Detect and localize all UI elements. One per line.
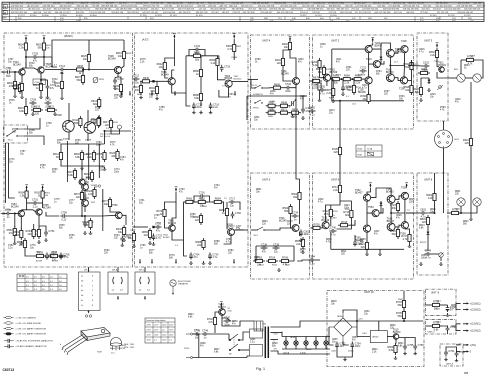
svg-text:448 715: 448 715 [219, 6, 228, 8]
resistor R663 [31, 227, 41, 239]
svg-text:276 244: 276 244 [351, 9, 360, 11]
ground [122, 238, 126, 241]
wire [427, 203, 435, 213]
arrow [117, 296, 119, 300]
junction [339, 100, 341, 102]
ground [446, 313, 450, 316]
svg-text:220: 220 [348, 89, 353, 92]
svg-text:C712: C712 [59, 65, 66, 68]
wire [183, 202, 185, 240]
svg-text:R639: R639 [113, 122, 119, 124]
wire lamp [285, 337, 287, 341]
svg-text:2.2k: 2.2k [326, 92, 331, 95]
wire secondary 2 [271, 339, 279, 341]
wire lamp [315, 337, 317, 341]
wire [389, 57, 391, 73]
wire interconnect [339, 173, 341, 183]
transistor T612 [79, 177, 92, 185]
supply +V [175, 187, 178, 192]
wire signal [66, 69, 75, 71]
svg-text:UNIT 4: UNIT 4 [262, 39, 271, 43]
svg-text:120: 120 [422, 221, 427, 224]
svg-text:R670: R670 [269, 108, 276, 111]
table line [15, 17, 17, 20]
label R793 [399, 96, 405, 101]
svg-text:720 624 304 809: 720 624 304 809 [444, 9, 461, 11]
voltage table line [57, 274, 59, 291]
wire [390, 203, 392, 223]
svg-text:R621: R621 [48, 106, 55, 109]
table line [54, 20, 56, 22]
svg-text:4.7u: 4.7u [320, 92, 325, 95]
label R824 [188, 314, 194, 319]
terminal [463, 323, 481, 326]
resistor R610 [116, 49, 126, 61]
wire [465, 77, 473, 79]
switch S1 [6, 128, 24, 136]
lamp [284, 341, 288, 345]
capacitor C715 [192, 103, 203, 110]
svg-text:3=2.3 4=1.4: 3=2.3 4=1.4 [100, 136, 110, 138]
wire [152, 80, 168, 82]
svg-text:BC550: BC550 [393, 331, 401, 334]
transistor T552 [355, 189, 371, 201]
svg-text:916 567 170 960: 916 567 170 960 [373, 3, 390, 5]
capacitor C724 [208, 253, 219, 260]
wire [39, 226, 46, 230]
label C779 [30, 245, 36, 250]
label C842 [455, 99, 461, 104]
wire bus top [332, 48, 365, 50]
svg-text:470 406 354: 470 406 354 [231, 3, 244, 5]
wire [14, 91, 16, 94]
transistor T604 [225, 75, 233, 87]
resistor R615 [18, 104, 28, 116]
svg-text:472 585 225 218: 472 585 225 218 [280, 6, 297, 8]
resistor R668 [278, 101, 290, 107]
ground [301, 116, 305, 119]
voltage table line [32, 274, 34, 291]
connector bracket [140, 277, 141, 284]
resistor R612 [91, 97, 101, 109]
wire signal [86, 69, 115, 71]
wire [226, 218, 229, 229]
unit box UNIT 6 [313, 173, 414, 279]
resistor R704 [266, 257, 278, 263]
resistor R671 [278, 108, 290, 114]
svg-text:426 194 839: 426 194 839 [163, 12, 176, 14]
transistor T558 [400, 222, 409, 236]
wire [451, 303, 461, 305]
resistor R670 [266, 108, 278, 114]
svg-text:567 991: 567 991 [165, 6, 174, 8]
mains terminal N [190, 356, 192, 358]
resistor R625 [81, 52, 91, 64]
DIN socket BU1 [435, 130, 453, 148]
resistor R626 [86, 187, 96, 199]
svg-text:2.2u: 2.2u [310, 262, 315, 265]
svg-text:BC549: BC549 [13, 63, 21, 66]
ground [89, 231, 93, 234]
svg-text:2.2k: 2.2k [344, 82, 349, 85]
svg-text:560: 560 [151, 90, 156, 93]
wire [390, 53, 404, 66]
ground [132, 244, 136, 247]
label R790 [255, 59, 261, 64]
wire [239, 349, 250, 351]
thermistor [117, 125, 121, 129]
resistor R640 [82, 218, 92, 230]
svg-text:690 699: 690 699 [106, 3, 115, 5]
svg-text:T604 , T605: T604 , T605 [124, 344, 134, 346]
wire [186, 93, 190, 106]
label C784 [120, 157, 126, 162]
svg-text:121 114: 121 114 [199, 9, 207, 11]
svg-text:= ¼W ± 5% CARBON: = ¼W ± 5% CARBON [16, 316, 37, 319]
svg-text:4.7k: 4.7k [208, 321, 213, 324]
ground [148, 241, 152, 244]
transistor T555 [355, 225, 371, 242]
transistor T655 [36, 204, 51, 215]
svg-text:PU03: PU03 [35, 82, 41, 84]
ground [394, 356, 398, 359]
label R799 [440, 107, 446, 112]
resistor R613 [33, 81, 43, 93]
transistor T203 [366, 58, 380, 68]
svg-text:BD437: BD437 [218, 306, 226, 309]
svg-text:861 186 842: 861 186 842 [136, 9, 149, 11]
wire [299, 232, 301, 237]
wire [247, 95, 307, 97]
wire [337, 220, 352, 229]
svg-text:1-5: 1-5 [26, 289, 29, 291]
resistor R621 [45, 106, 57, 112]
transistor T501 [279, 217, 299, 232]
ground [202, 261, 206, 264]
svg-text:223 669 163 433: 223 669 163 433 [362, 9, 379, 11]
svg-text:4.7u: 4.7u [63, 256, 68, 259]
wire vertical right [470, 148, 472, 213]
resistor R604 [12, 82, 22, 94]
resistor R611 [72, 116, 82, 128]
resistor R604 [18, 41, 28, 53]
svg-text:91 243: 91 243 [170, 15, 177, 17]
wire [200, 79, 202, 91]
capacitor C718 [113, 78, 124, 85]
svg-text:C716: C716 [199, 191, 206, 194]
svg-text:220: 220 [465, 142, 470, 145]
wire [247, 356, 250, 358]
wire [88, 40, 90, 52]
wire [372, 43, 390, 49]
wire [33, 224, 35, 227]
voltage table circles [19, 275, 21, 277]
svg-text:2.2u: 2.2u [250, 342, 255, 344]
wire [88, 144, 90, 180]
svg-text:1-4: 1-4 [112, 290, 115, 292]
wire [443, 121, 445, 130]
diode [428, 78, 431, 84]
svg-text:895 287 723: 895 287 723 [337, 9, 350, 11]
svg-text:439 629 738: 439 629 738 [196, 12, 209, 14]
capacitor C736 [261, 243, 268, 253]
resistor R649 [149, 84, 159, 96]
label C806 [270, 91, 276, 96]
svg-text:c: c [63, 348, 64, 350]
wire [12, 213, 19, 215]
jack switch S5 [439, 253, 444, 258]
ground [341, 92, 345, 95]
svg-text:C749: C749 [202, 329, 209, 332]
label R774 [12, 129, 18, 134]
resistor R688 [193, 91, 203, 103]
supply +V [43, 36, 46, 41]
label C827 [374, 231, 380, 236]
junction plug [152, 226, 154, 228]
table row text [18, 15, 471, 17]
svg-text:255 600 531: 255 600 531 [313, 3, 326, 5]
table line [79, 17, 81, 20]
svg-text:R706: R706 [282, 257, 289, 260]
wire [209, 333, 230, 335]
ground [53, 112, 57, 115]
wire [12, 71, 19, 73]
svg-text:+(12V)(2): +(12V)(2) [470, 330, 481, 333]
resistor R638 [48, 252, 60, 262]
svg-text:= FLAT FOIL POLYESTER CAPACITO: = FLAT FOIL POLYESTER CAPACITOR [16, 340, 54, 343]
svg-text:C802: C802 [420, 208, 427, 211]
svg-text:VIBRATOR: VIBRATOR [178, 283, 189, 286]
connector circles [85, 315, 87, 317]
svg-text:898 349 183 688: 898 349 183 688 [253, 3, 270, 5]
label R815 [430, 209, 436, 214]
wire [350, 220, 355, 225]
wire interconnect [295, 129, 297, 173]
voltage table line [24, 274, 26, 291]
svg-text:6.3: 6.3 [50, 289, 53, 291]
svg-text:100n: 100n [421, 258, 427, 260]
svg-text:4.7u: 4.7u [362, 88, 367, 90]
ground [119, 94, 123, 97]
svg-text:391 833 495: 391 833 495 [436, 3, 449, 5]
resistor R645 [96, 150, 106, 162]
resistor R678 [310, 77, 322, 87]
lamp [324, 341, 328, 345]
wire [165, 219, 169, 228]
svg-text:R631: R631 [99, 79, 105, 81]
label C794 [214, 185, 220, 190]
svg-text:47n: 47n [361, 73, 366, 76]
wire [38, 215, 40, 228]
wire output [437, 72, 448, 78]
svg-text:644 537 895 421: 644 537 895 421 [208, 3, 225, 5]
wire [200, 103, 202, 106]
lamp [314, 341, 318, 345]
capacitor C743 [353, 240, 364, 247]
svg-text:4.7u: 4.7u [419, 52, 424, 54]
capacitor C710 [45, 98, 52, 108]
capacitor C707 [45, 253, 56, 260]
svg-text:C736: C736 [261, 243, 268, 246]
wire [283, 50, 290, 56]
wire [460, 60, 462, 74]
label R818 [331, 301, 337, 306]
wire [47, 91, 49, 96]
resistor R709 [311, 224, 323, 230]
wire [223, 202, 225, 212]
resistor R733 [396, 298, 406, 310]
label R758 [99, 167, 105, 172]
wire [84, 216, 86, 221]
svg-text:6.3: 6.3 [26, 285, 29, 287]
ground [60, 96, 64, 99]
svg-text:138 188: 138 188 [53, 3, 62, 5]
resistor R652 [7, 226, 17, 238]
junction [341, 78, 343, 80]
resistor R560 [387, 343, 397, 355]
transistor T617 [218, 304, 226, 316]
wire [380, 61, 384, 64]
svg-text:215 907: 215 907 [211, 12, 220, 14]
transistor T601 [81, 178, 89, 190]
junction [84, 215, 86, 217]
svg-text:61 455: 61 455 [196, 15, 203, 17]
wire [88, 64, 90, 70]
svg-text:R678: R678 [313, 77, 320, 80]
svg-text:47u: 47u [33, 59, 38, 62]
wire [395, 196, 402, 199]
svg-text:Fig. 1: Fig. 1 [256, 367, 265, 371]
svg-text:4.7u: 4.7u [156, 237, 161, 240]
svg-text:240V: 240V [162, 325, 167, 327]
svg-text:220: 220 [86, 176, 91, 179]
label R821 [398, 343, 404, 348]
off-page arrow [233, 259, 235, 264]
wire [14, 238, 16, 241]
wire [391, 200, 405, 214]
svg-text:94 606: 94 606 [42, 15, 49, 17]
wire [14, 214, 16, 228]
svg-text:4.8: 4.8 [42, 285, 45, 287]
wire signal [45, 69, 59, 71]
table letter R [3, 11, 7, 15]
wire [165, 58, 175, 60]
adapter table text [147, 325, 175, 327]
wire [43, 62, 45, 66]
ground [13, 94, 17, 97]
wire [24, 136, 44, 145]
adapter table line [145, 321, 175, 323]
legend resistor symbol [4, 333, 14, 335]
capacitor C726 [285, 83, 292, 93]
svg-text:20 781: 20 781 [464, 15, 471, 17]
svg-text:FU61: FU61 [358, 155, 363, 157]
transistor T205 [358, 77, 372, 94]
off-page arrow [121, 91, 123, 96]
svg-text:336 254 184: 336 254 184 [76, 6, 89, 8]
wire [3, 213, 6, 215]
svg-text:560: 560 [398, 315, 403, 318]
capacitor C747 [224, 316, 231, 326]
capacitor C705 [32, 52, 39, 62]
wire secondary 3 [271, 351, 331, 354]
wire [456, 351, 461, 353]
wire [236, 202, 241, 210]
wire [369, 43, 373, 46]
wire [366, 213, 368, 225]
unit box UNIT 2 [313, 35, 414, 129]
resistor R686 [352, 75, 364, 85]
wire [328, 228, 331, 230]
wire [200, 56, 202, 67]
svg-text:1.5k: 1.5k [19, 46, 24, 49]
svg-text:R692: R692 [36, 252, 42, 254]
terminal [463, 302, 481, 305]
wire [291, 246, 294, 261]
label C777 [69, 200, 75, 205]
svg-text:6.8k: 6.8k [55, 85, 60, 88]
svg-text:485 252 749 358: 485 252 749 358 [258, 6, 275, 8]
capacitor C504 [309, 255, 316, 265]
svg-text:R650: R650 [194, 51, 201, 54]
label R775 [140, 59, 146, 64]
capacitor C754 [351, 342, 362, 349]
adapter table text [147, 340, 172, 342]
ground [37, 240, 41, 243]
svg-text:6.8k: 6.8k [389, 349, 394, 352]
svg-text:220: 220 [361, 246, 366, 249]
svg-text:728 126 172: 728 126 172 [241, 6, 254, 8]
wire [26, 56, 32, 58]
junction [43, 56, 45, 58]
label R764 [114, 235, 120, 240]
svg-text:346 538 174 317: 346 538 174 317 [55, 12, 72, 14]
speaker LS2 [473, 198, 481, 206]
label C775 [54, 199, 60, 204]
svg-text:922 332 304 630: 922 332 304 630 [436, 6, 453, 8]
resistor R703 [253, 257, 265, 267]
wire [283, 87, 285, 89]
label C832 [364, 311, 370, 316]
wire input [251, 229, 256, 231]
svg-text:C302: C302 [423, 61, 430, 64]
wire [425, 304, 430, 306]
svg-text:C731: C731 [360, 66, 367, 69]
svg-text:2.2u: 2.2u [357, 243, 362, 246]
wire [378, 321, 380, 331]
resistor R681 [330, 75, 342, 85]
wire [321, 227, 324, 229]
supply +V [405, 183, 408, 188]
junction [323, 77, 325, 79]
wire [283, 68, 293, 81]
wire input [248, 78, 258, 80]
wire [132, 78, 135, 80]
svg-text:C710: C710 [45, 98, 52, 101]
svg-text:541 627 513 447: 541 627 513 447 [142, 12, 159, 14]
diode [380, 55, 383, 61]
svg-text:823 525 467: 823 525 467 [60, 6, 73, 8]
resistor R726 [390, 227, 400, 239]
table line [239, 20, 241, 22]
svg-text:294 626 586 351: 294 626 586 351 [457, 12, 474, 14]
wire [20, 217, 22, 229]
wire rail [173, 39, 175, 66]
svg-text:4.7k: 4.7k [324, 213, 329, 216]
input terminal arrow [1, 71, 5, 73]
svg-text:4.7k: 4.7k [403, 238, 408, 241]
lamp [294, 341, 298, 345]
